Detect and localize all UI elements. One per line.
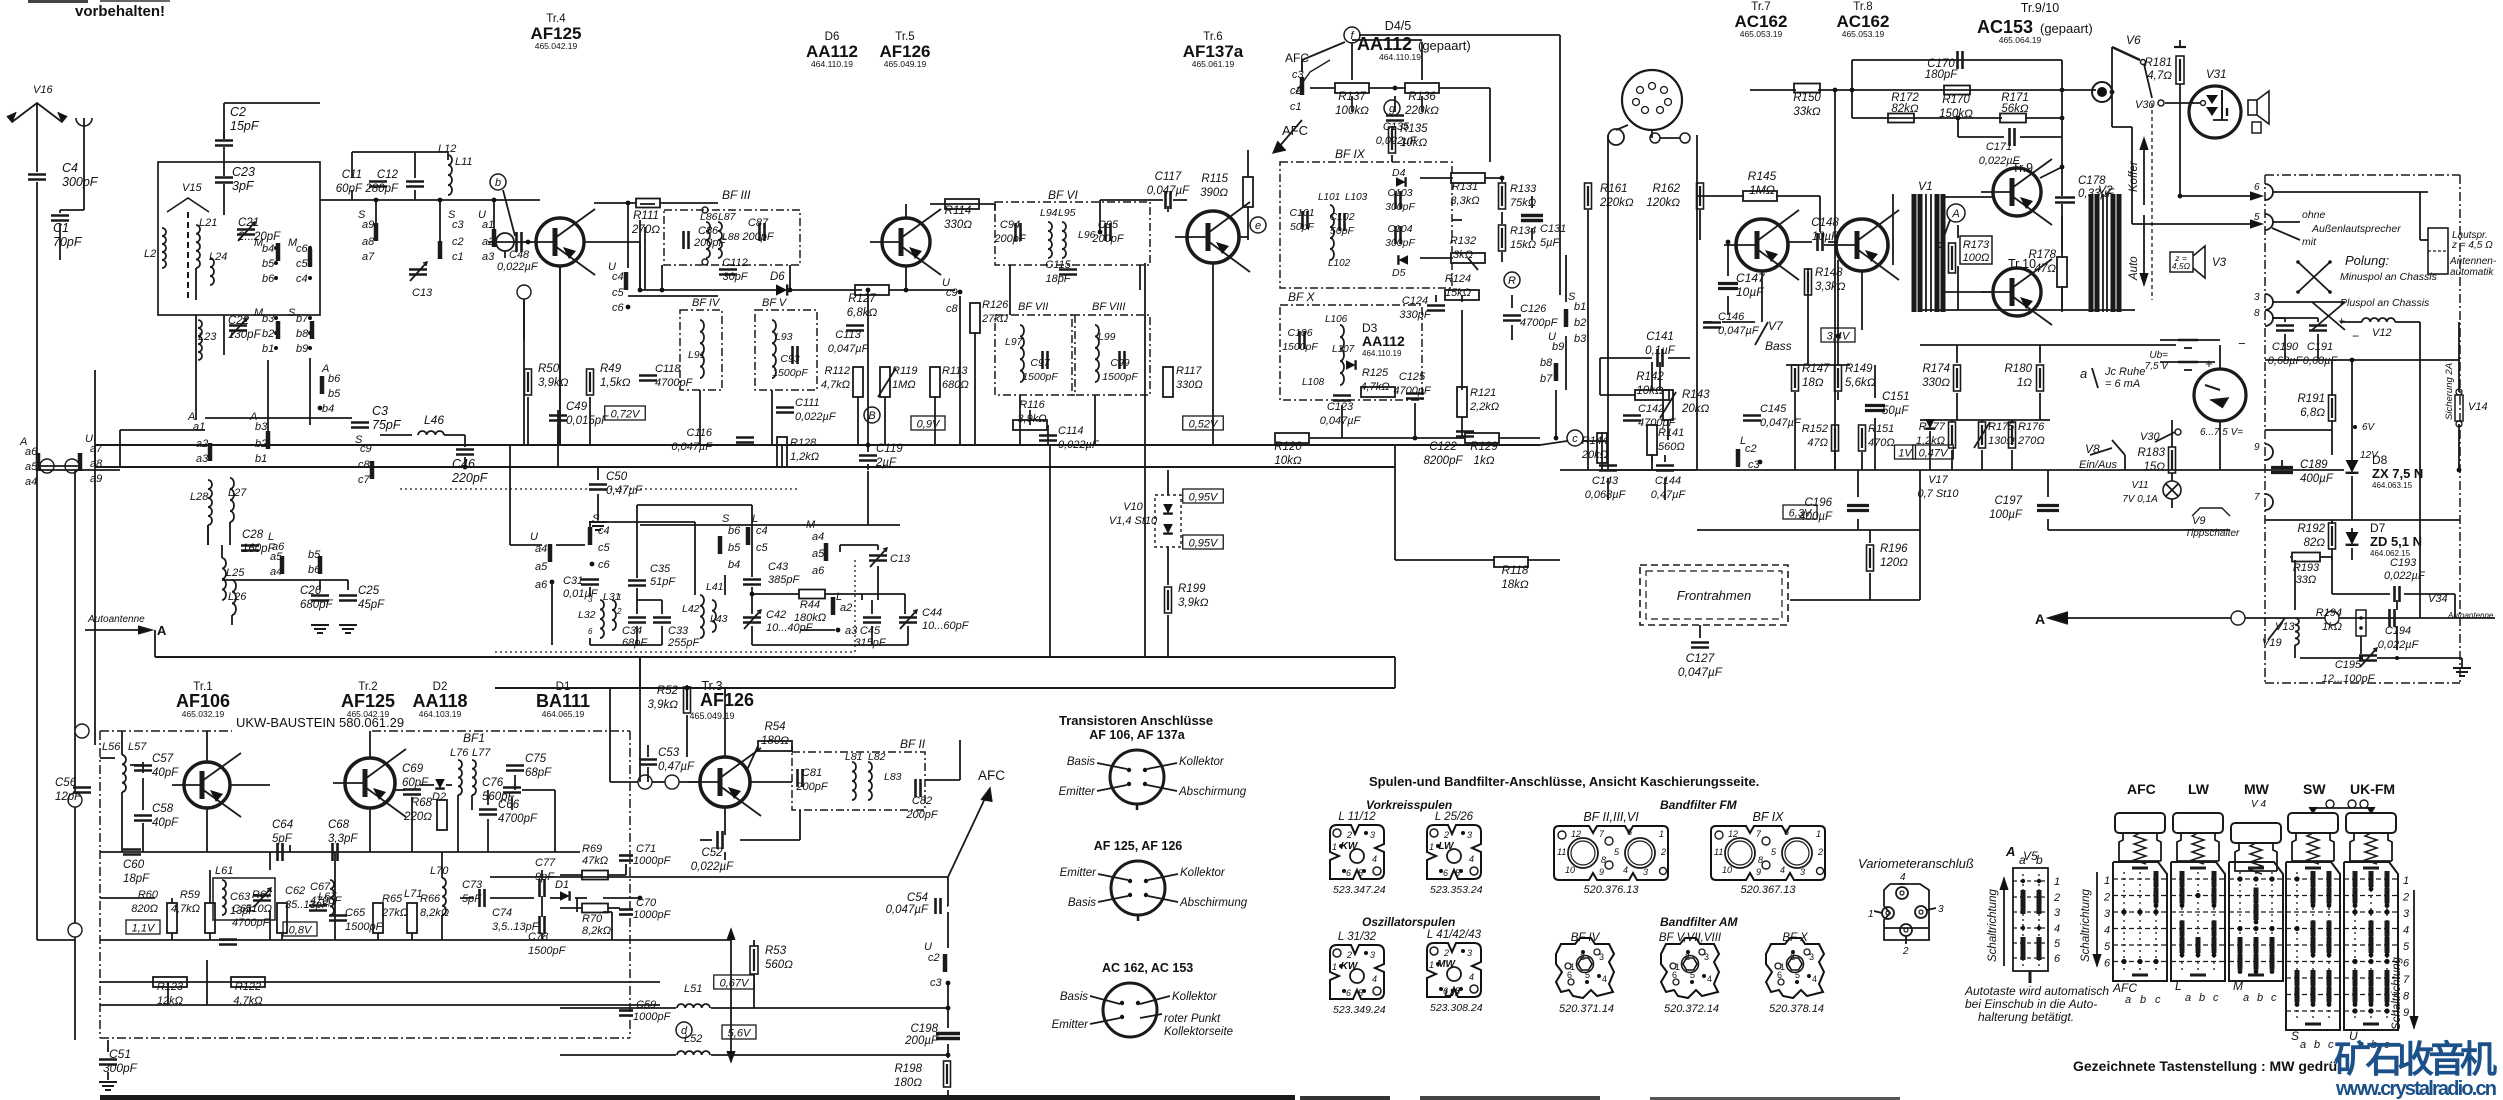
svg-text:C191: C191 <box>2307 341 2333 353</box>
svg-text:R193: R193 <box>2293 562 2320 574</box>
svg-text:2µF: 2µF <box>875 457 897 469</box>
svg-text:0,022µF: 0,022µF <box>691 861 734 873</box>
svg-text:L41: L41 <box>706 581 724 593</box>
svg-text:L27: L27 <box>228 487 247 499</box>
svg-text:465.053.19: 465.053.19 <box>1740 29 1783 39</box>
svg-text:70pF: 70pF <box>53 235 83 249</box>
svg-text:2: 2 <box>616 607 622 616</box>
svg-text:C69: C69 <box>402 763 424 775</box>
svg-text:C63: C63 <box>230 891 251 903</box>
svg-text:Abschirmung: Abschirmung <box>1179 897 1248 909</box>
svg-text:4: 4 <box>1780 865 1785 875</box>
svg-text:R54: R54 <box>764 721 785 733</box>
svg-text:0,47µF: 0,47µF <box>606 485 643 497</box>
svg-text:c9: c9 <box>946 287 958 299</box>
svg-text:M: M <box>254 307 264 319</box>
svg-text:6: 6 <box>1443 868 1448 878</box>
svg-text:R44: R44 <box>800 599 820 611</box>
svg-text:1,1V: 1,1V <box>132 923 156 935</box>
svg-text:C2: C2 <box>230 105 246 119</box>
svg-text:L42: L42 <box>682 603 700 615</box>
svg-text:510Ω: 510Ω <box>245 903 272 915</box>
svg-text:R115: R115 <box>1201 173 1228 185</box>
svg-text:(gepaart): (gepaart) <box>2040 21 2093 36</box>
svg-text:C44: C44 <box>922 607 942 619</box>
svg-text:c4: c4 <box>598 525 610 537</box>
svg-text:LW: LW <box>1445 988 1462 999</box>
svg-text:51pF: 51pF <box>650 576 676 588</box>
svg-text:c8: c8 <box>946 303 959 315</box>
svg-text:C75: C75 <box>525 753 547 765</box>
svg-text:Kollektor: Kollektor <box>1172 991 1218 1003</box>
svg-text:4: 4 <box>1900 872 1906 883</box>
svg-text:C122: C122 <box>1429 441 1457 453</box>
svg-text:C13: C13 <box>412 287 433 299</box>
svg-text:3,9kΩ: 3,9kΩ <box>538 377 569 389</box>
svg-text:c4: c4 <box>756 525 768 537</box>
svg-text:AA118: AA118 <box>412 691 467 711</box>
svg-text:1000pF: 1000pF <box>633 855 672 867</box>
svg-text:a2: a2 <box>196 438 208 450</box>
svg-text:L32: L32 <box>578 609 596 621</box>
svg-text:R198: R198 <box>895 1063 923 1075</box>
svg-text:R112: R112 <box>825 365 850 377</box>
svg-text:Vorkreisspulen: Vorkreisspulen <box>1366 798 1452 812</box>
svg-text:2: 2 <box>1443 830 1449 840</box>
svg-text:a: a <box>2300 1039 2306 1051</box>
svg-text:BF IV: BF IV <box>692 297 721 309</box>
svg-text:60pF: 60pF <box>336 183 363 195</box>
svg-text:Pluspol an Chassis: Pluspol an Chassis <box>2340 297 2430 309</box>
svg-text:9: 9 <box>2254 442 2260 453</box>
svg-text:300pF: 300pF <box>1385 237 1415 249</box>
svg-text:L82: L82 <box>868 751 886 763</box>
svg-text:C104: C104 <box>1387 223 1412 235</box>
svg-text:L46: L46 <box>424 413 444 427</box>
svg-text:30pF: 30pF <box>722 271 748 283</box>
svg-text:Minuspol an Chassis: Minuspol an Chassis <box>2340 271 2438 283</box>
svg-text:R114: R114 <box>945 205 972 217</box>
svg-text:V13: V13 <box>2275 621 2295 633</box>
svg-text:C113: C113 <box>835 329 861 341</box>
svg-text:464.110.19: 464.110.19 <box>811 59 853 69</box>
svg-text:3: 3 <box>2254 292 2260 303</box>
svg-text:C34: C34 <box>622 625 642 637</box>
svg-text:C45: C45 <box>860 625 881 637</box>
svg-text:C151: C151 <box>1882 391 1910 403</box>
svg-text:520.367.13: 520.367.13 <box>1740 884 1796 896</box>
svg-text:b5: b5 <box>262 258 275 270</box>
svg-text:a: a <box>2185 992 2191 1004</box>
svg-text:C66: C66 <box>498 799 520 811</box>
svg-text:C56: C56 <box>55 777 77 789</box>
svg-text:L93: L93 <box>775 331 793 343</box>
svg-text:C64: C64 <box>272 819 293 831</box>
svg-text:4,7kΩ: 4,7kΩ <box>821 379 850 391</box>
svg-text:C35: C35 <box>650 563 671 575</box>
svg-text:60pF: 60pF <box>402 777 429 789</box>
svg-text:R178: R178 <box>2029 249 2057 261</box>
svg-text:1: 1 <box>2104 875 2110 887</box>
svg-text:8: 8 <box>1601 855 1606 865</box>
svg-text:465.042.19: 465.042.19 <box>535 41 578 51</box>
svg-text:6: 6 <box>2403 958 2410 970</box>
svg-text:L101: L101 <box>1318 192 1340 203</box>
svg-text:C46: C46 <box>452 457 475 471</box>
svg-text:1Ω: 1Ω <box>2017 377 2032 389</box>
svg-text:a8: a8 <box>362 236 375 248</box>
svg-text:1000pF: 1000pF <box>633 1011 672 1023</box>
svg-text:AC153: AC153 <box>1977 17 2033 37</box>
svg-text:c6: c6 <box>296 243 309 255</box>
svg-text:0,022µF: 0,022µF <box>795 411 837 423</box>
svg-text:R66: R66 <box>420 893 441 905</box>
svg-text:0,022µF: 0,022µF <box>1979 155 2021 167</box>
svg-text:0,015pF: 0,015pF <box>566 415 609 427</box>
svg-text:200pF: 200pF <box>1091 233 1124 245</box>
svg-text:R69: R69 <box>582 843 602 855</box>
svg-text:C33: C33 <box>668 625 689 637</box>
svg-text:b3: b3 <box>262 313 275 325</box>
svg-text:200pF: 200pF <box>905 809 938 821</box>
svg-text:D2: D2 <box>432 791 446 803</box>
svg-text:L24: L24 <box>209 251 227 263</box>
svg-text:mit: mit <box>2302 236 2317 248</box>
svg-text:5pF: 5pF <box>462 893 482 905</box>
svg-text:7: 7 <box>2403 974 2410 986</box>
svg-text:Gezeichnete Tastenstellung :: Gezeichnete Tastenstellung : MW gedrü <box>2073 1058 2337 1074</box>
svg-text:C65: C65 <box>345 907 366 919</box>
svg-text:C124: C124 <box>1402 295 1428 307</box>
svg-text:5: 5 <box>2054 938 2061 950</box>
svg-text:a1: a1 <box>193 421 205 433</box>
svg-text:465.049.19: 465.049.19 <box>884 59 927 69</box>
svg-text:3: 3 <box>1370 830 1375 840</box>
svg-text:270Ω: 270Ω <box>2017 435 2045 447</box>
svg-text:Emitter: Emitter <box>1059 786 1097 798</box>
svg-text:Emitter: Emitter <box>1052 1019 1090 1031</box>
svg-text:1: 1 <box>1429 960 1434 970</box>
svg-text:a5: a5 <box>535 561 548 573</box>
svg-text:R128: R128 <box>790 437 817 449</box>
svg-text:4: 4 <box>2054 923 2060 935</box>
svg-text:2: 2 <box>1817 847 1823 857</box>
svg-text:C76: C76 <box>482 777 504 789</box>
svg-text:180Ω: 180Ω <box>894 1077 922 1089</box>
svg-text:KW: KW <box>1341 841 1359 852</box>
svg-text:4,5Ω: 4,5Ω <box>2172 261 2191 271</box>
svg-text:V31: V31 <box>2206 69 2226 81</box>
svg-text:5,6kΩ: 5,6kΩ <box>1845 377 1876 389</box>
svg-text:0,67V: 0,67V <box>720 978 750 990</box>
svg-text:3: 3 <box>1643 867 1648 877</box>
svg-text:V19: V19 <box>2262 637 2282 649</box>
svg-text:4700pF: 4700pF <box>1520 317 1559 329</box>
svg-text:R191: R191 <box>2298 393 2326 405</box>
svg-text:SW: SW <box>2303 781 2326 797</box>
svg-text:R133: R133 <box>1510 183 1537 195</box>
svg-text:L87: L87 <box>718 211 737 223</box>
svg-text:3: 3 <box>2403 908 2410 920</box>
svg-text:5: 5 <box>1585 970 1590 980</box>
svg-text:C131: C131 <box>1540 223 1566 235</box>
svg-text:C77: C77 <box>535 857 556 869</box>
svg-text:C71: C71 <box>636 843 656 855</box>
svg-text:40pF: 40pF <box>152 817 179 829</box>
svg-text:6: 6 <box>1627 827 1632 837</box>
svg-text:c5: c5 <box>296 258 309 270</box>
svg-text:V15: V15 <box>182 182 202 194</box>
svg-text:20kΩ: 20kΩ <box>1581 449 1608 461</box>
svg-text:a3: a3 <box>196 453 209 465</box>
svg-text:18kΩ: 18kΩ <box>1501 579 1529 591</box>
svg-text:b9: b9 <box>1552 341 1564 353</box>
svg-text:AF125: AF125 <box>341 691 395 711</box>
svg-text:C197: C197 <box>1995 495 2023 507</box>
svg-text:150kΩ: 150kΩ <box>1939 108 1973 120</box>
svg-text:15Ω: 15Ω <box>2143 461 2165 473</box>
svg-text:465.049.19: 465.049.19 <box>689 711 734 721</box>
svg-text:10kΩ: 10kΩ <box>1400 137 1428 149</box>
svg-text:R183: R183 <box>2138 447 2166 459</box>
svg-text:C125: C125 <box>1399 371 1426 383</box>
svg-text:0,1µF: 0,1µF <box>1645 345 1676 357</box>
svg-text:9: 9 <box>2403 1007 2409 1019</box>
svg-text:C62: C62 <box>285 885 305 897</box>
svg-text:464.065.19: 464.065.19 <box>542 709 585 719</box>
svg-text:c: c <box>1572 433 1578 445</box>
svg-text:B: B <box>868 410 875 422</box>
svg-text:180pF: 180pF <box>1925 69 1959 81</box>
svg-text:a: a <box>2019 853 2026 867</box>
svg-text:120kΩ: 120kΩ <box>1646 197 1680 209</box>
svg-text:R49: R49 <box>600 363 622 375</box>
svg-text:1MΩ: 1MΩ <box>1749 183 1775 197</box>
svg-text:68pF: 68pF <box>622 637 648 649</box>
svg-text:R151: R151 <box>1868 423 1894 435</box>
svg-text:z = 4,5 Ω: z = 4,5 Ω <box>2451 240 2493 251</box>
svg-text:R194: R194 <box>2316 607 2342 619</box>
svg-text:Variometeranschluß: Variometeranschluß <box>1858 856 1974 871</box>
svg-text:= 6 mA: = 6 mA <box>2105 378 2140 390</box>
svg-text:8: 8 <box>1758 855 1763 865</box>
svg-text:C51: C51 <box>109 1047 131 1061</box>
svg-text:6...7,5 V=: 6...7,5 V= <box>2200 427 2243 438</box>
svg-text:C97: C97 <box>1030 357 1050 369</box>
svg-text:c6: c6 <box>598 559 611 571</box>
svg-text:Bass: Bass <box>1765 339 1792 353</box>
svg-text:464.110.19: 464.110.19 <box>1362 349 1402 358</box>
svg-text:C143: C143 <box>1592 475 1619 487</box>
svg-text:(gepaart): (gepaart) <box>1418 38 1471 53</box>
svg-text:UK-FM: UK-FM <box>2350 781 2395 797</box>
svg-text:40pF: 40pF <box>152 767 179 779</box>
svg-text:V1,4 St10: V1,4 St10 <box>1109 515 1158 527</box>
svg-text:10: 10 <box>1565 865 1575 875</box>
svg-text:c4: c4 <box>296 273 308 285</box>
svg-text:R121: R121 <box>1470 387 1496 399</box>
svg-text:BF X: BF X <box>1288 290 1315 304</box>
svg-text:R125: R125 <box>1362 367 1389 379</box>
svg-text:L56: L56 <box>102 741 121 753</box>
svg-text:Tr.9/10: Tr.9/10 <box>2021 1 2059 15</box>
svg-text:680Ω: 680Ω <box>942 379 969 391</box>
svg-text:C23: C23 <box>232 165 255 179</box>
svg-text:470Ω: 470Ω <box>1868 437 1895 449</box>
svg-text:3pF: 3pF <box>232 179 255 193</box>
svg-text:464.103.19: 464.103.19 <box>419 709 462 719</box>
svg-text:5pF: 5pF <box>272 833 293 845</box>
svg-text:20kΩ: 20kΩ <box>1681 403 1710 415</box>
svg-text:L103: L103 <box>1345 192 1368 203</box>
svg-text:C99: C99 <box>1110 357 1129 369</box>
svg-text:Basis: Basis <box>1068 897 1096 909</box>
svg-text:1,5kΩ: 1,5kΩ <box>600 377 631 389</box>
svg-text:+: + <box>2205 356 2213 371</box>
svg-text:56kΩ: 56kΩ <box>2001 103 2029 115</box>
svg-text:0,01µF: 0,01µF <box>563 588 599 600</box>
svg-text:a6: a6 <box>535 579 548 591</box>
svg-text:3: 3 <box>1938 904 1944 915</box>
svg-text:C50: C50 <box>606 471 628 483</box>
svg-text:c2: c2 <box>452 236 464 248</box>
svg-text:D6: D6 <box>770 271 785 283</box>
svg-text:6: 6 <box>1784 827 1789 837</box>
svg-text:400µF: 400µF <box>2300 473 2334 485</box>
svg-text:R: R <box>1508 275 1516 287</box>
svg-text:V6: V6 <box>2126 33 2141 47</box>
svg-text:1: 1 <box>2403 875 2409 887</box>
svg-text:b8: b8 <box>296 328 309 340</box>
svg-text:C101: C101 <box>1289 207 1314 219</box>
svg-text:c7: c7 <box>358 474 371 486</box>
svg-text:Autoantenne: Autoantenne <box>2447 611 2494 620</box>
svg-text:5: 5 <box>1795 970 1800 980</box>
svg-text:L21: L21 <box>199 217 217 229</box>
svg-text:a8: a8 <box>90 458 103 470</box>
svg-text:ZD 5,1 N: ZD 5,1 N <box>2370 534 2422 549</box>
svg-text:a3: a3 <box>845 625 858 637</box>
svg-text:0,022µF: 0,022µF <box>1058 439 1100 451</box>
svg-text:4: 4 <box>1372 854 1377 864</box>
svg-text:www.crystalradio.cn: www.crystalradio.cn <box>2335 1078 2497 1100</box>
svg-text:C52: C52 <box>701 847 723 859</box>
svg-text:b2: b2 <box>1574 317 1586 329</box>
svg-text:464.110.19: 464.110.19 <box>1379 52 1421 62</box>
svg-text:4,7Ω: 4,7Ω <box>2147 70 2172 82</box>
svg-text:33Ω: 33Ω <box>2296 574 2317 586</box>
svg-text:C12: C12 <box>377 169 399 181</box>
svg-text:465.042.19: 465.042.19 <box>347 709 390 719</box>
svg-text:C82: C82 <box>912 795 932 807</box>
svg-text:12...100pF: 12...100pF <box>2322 673 2376 685</box>
svg-text:L91: L91 <box>688 349 706 361</box>
svg-text:C43: C43 <box>768 561 789 573</box>
svg-text:L61: L61 <box>215 865 233 877</box>
svg-text:45pF: 45pF <box>358 599 385 611</box>
svg-text:a: a <box>2243 992 2249 1004</box>
svg-text:200µF: 200µF <box>904 1035 939 1047</box>
svg-text:automatik: automatik <box>2450 267 2494 278</box>
svg-text:C21: C21 <box>238 217 259 229</box>
svg-text:6: 6 <box>588 627 593 636</box>
svg-text:R162: R162 <box>1653 183 1681 195</box>
svg-text:R174: R174 <box>1923 363 1951 375</box>
svg-text:b: b <box>2036 853 2043 867</box>
svg-text:2: 2 <box>2103 892 2110 904</box>
svg-text:18pF: 18pF <box>1045 273 1071 285</box>
svg-text:15kΩ: 15kΩ <box>1510 239 1536 251</box>
svg-text:50µF: 50µF <box>1882 405 1909 417</box>
svg-text:Oszillatorspulen: Oszillatorspulen <box>1362 915 1455 929</box>
svg-text:C1: C1 <box>53 221 69 235</box>
svg-text:L: L <box>752 513 758 525</box>
svg-text:b: b <box>2199 992 2205 1004</box>
svg-text:L108: L108 <box>1302 377 1325 388</box>
svg-text:b6: b6 <box>262 273 275 285</box>
svg-text:a9: a9 <box>90 473 102 485</box>
svg-text:0,047µF: 0,047µF <box>671 441 713 453</box>
svg-text:AFC: AFC <box>2127 781 2156 797</box>
svg-text:3,3kΩ: 3,3kΩ <box>1450 195 1479 207</box>
svg-text:C142: C142 <box>1638 403 1664 415</box>
svg-text:4: 4 <box>1372 974 1377 984</box>
svg-text:C42: C42 <box>766 609 786 621</box>
svg-text:V 4: V 4 <box>2251 799 2266 810</box>
svg-text:R59: R59 <box>180 889 200 901</box>
svg-text:465.061.19: 465.061.19 <box>1192 59 1235 69</box>
svg-text:465.032.19: 465.032.19 <box>182 709 225 719</box>
svg-text:520.372.14: 520.372.14 <box>1664 1003 1719 1015</box>
svg-text:M: M <box>2233 979 2243 993</box>
svg-text:A: A <box>2005 844 2015 859</box>
svg-text:R152: R152 <box>1802 423 1828 435</box>
svg-text:C123: C123 <box>1327 401 1354 413</box>
svg-text:b5: b5 <box>328 388 341 400</box>
svg-text:6,8kΩ: 6,8kΩ <box>847 307 878 319</box>
svg-text:a: a <box>2125 994 2131 1006</box>
svg-text:1500pF: 1500pF <box>1282 341 1318 353</box>
svg-text:2: 2 <box>1443 948 1449 958</box>
svg-text:L81: L81 <box>845 751 863 763</box>
svg-text:68pF: 68pF <box>525 767 552 779</box>
svg-text:c3: c3 <box>930 977 943 989</box>
svg-text:AFC: AFC <box>978 768 1005 783</box>
svg-text:R176: R176 <box>2018 421 2045 433</box>
svg-text:3,9kΩ: 3,9kΩ <box>1178 597 1209 609</box>
svg-text:330Ω: 330Ω <box>1922 377 1950 389</box>
svg-text:Auto: Auto <box>2128 256 2140 281</box>
svg-text:470pF: 470pF <box>310 895 342 907</box>
svg-text:3,3kΩ: 3,3kΩ <box>1815 281 1846 293</box>
svg-text:C58: C58 <box>152 803 174 815</box>
svg-text:R170: R170 <box>1942 94 1970 106</box>
svg-text:Schaltrichtung: Schaltrichtung <box>2080 889 2092 962</box>
svg-text:C193: C193 <box>2390 557 2417 569</box>
svg-text:A: A <box>2035 611 2045 627</box>
svg-text:LW: LW <box>2188 781 2210 797</box>
svg-text:6: 6 <box>1672 970 1677 980</box>
svg-text:C94: C94 <box>1000 219 1020 231</box>
svg-text:3: 3 <box>1704 952 1709 962</box>
svg-text:4: 4 <box>1469 972 1474 982</box>
svg-text:R141: R141 <box>1658 427 1684 439</box>
svg-text:C73: C73 <box>462 879 483 891</box>
svg-text:R132: R132 <box>1450 235 1476 247</box>
svg-text:M: M <box>806 519 816 531</box>
svg-text:315pF: 315pF <box>854 637 886 649</box>
svg-text:1: 1 <box>1868 909 1874 920</box>
